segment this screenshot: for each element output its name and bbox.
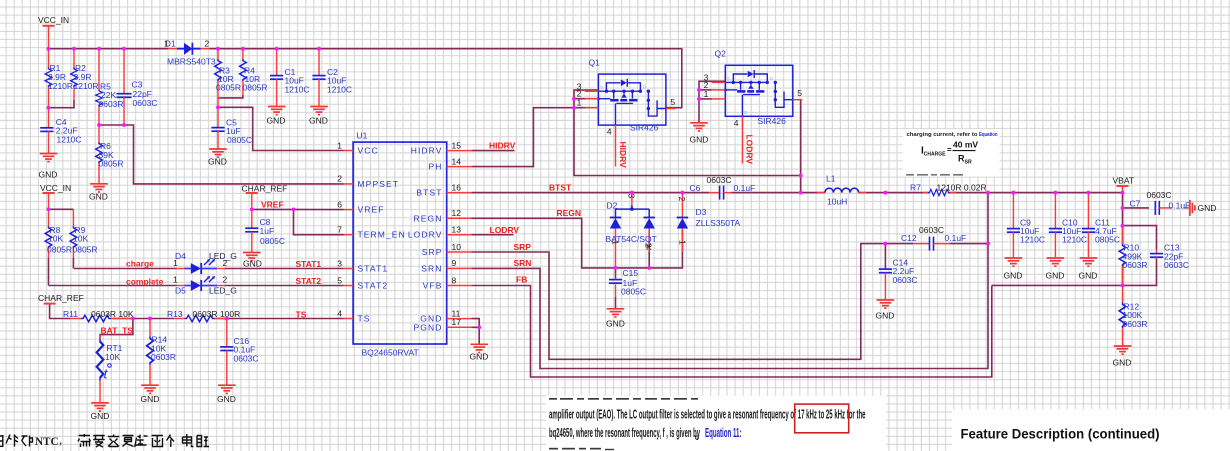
svg-text:STAT1: STAT1 — [358, 264, 389, 274]
svg-text:NTC: NTC — [35, 436, 59, 448]
svg-text:1: 1 — [173, 258, 178, 268]
ground C16 — [217, 385, 236, 404]
svg-text:Equation 11:: Equation 11: — [705, 425, 742, 440]
node VCC_IN2/R8 — [47, 207, 51, 211]
wire C12 row — [885, 243, 913, 245]
ground C14 — [876, 300, 895, 321]
ground C4 — [39, 154, 58, 180]
op-amp U1 BQ24650RVAT chip body — [353, 131, 447, 358]
capacitor C16 — [220, 319, 258, 386]
resistor R10 — [1119, 226, 1147, 286]
diode D3 ZLLS350TA — [677, 193, 741, 252]
wire TERM_EN branch — [294, 209, 344, 234]
thermistor RT1 — [97, 335, 123, 403]
node REGN/D2a2 — [647, 266, 651, 270]
capacitor C5 — [211, 107, 252, 149]
svg-text:0805R: 0805R — [99, 158, 124, 168]
svg-text:0603R 10K: 0603R 10K — [91, 309, 134, 319]
svg-text:1210R: 1210R — [48, 81, 73, 91]
node R3/C5 — [216, 105, 220, 109]
svg-text:0805C: 0805C — [1095, 235, 1120, 245]
U1 pin numbers — [337, 140, 461, 327]
svg-text:GND: GND — [267, 116, 286, 126]
ground C1 — [267, 107, 286, 126]
svg-text:12: 12 — [452, 208, 462, 218]
svg-text:0603C: 0603C — [707, 175, 732, 185]
svg-text:1: 1 — [337, 140, 342, 150]
svg-text:complete: complete — [126, 276, 164, 286]
node C3/MPPSET — [122, 123, 126, 127]
svg-text:5: 5 — [337, 275, 342, 285]
ground C15 — [606, 309, 625, 329]
svg-text:VCC_IN: VCC_IN — [40, 183, 71, 193]
svg-text:0603R: 0603R — [1123, 260, 1148, 270]
svg-text:SR: SR — [965, 160, 972, 166]
svg-text:MPPSET: MPPSET — [358, 179, 400, 189]
resistor R1 — [45, 49, 73, 108]
svg-text:Feature Description (continued: Feature Description (continued) — [961, 426, 1160, 442]
svg-text:1210R 0.02R: 1210R 0.02R — [937, 182, 987, 192]
resistor R14 — [147, 319, 176, 386]
svg-text:6: 6 — [337, 199, 342, 209]
node BTST/D3 — [680, 191, 684, 195]
resistor R12 — [1119, 285, 1147, 345]
svg-text:0603C: 0603C — [1164, 260, 1189, 270]
wire VREF row — [252, 208, 344, 210]
node R1/C4 — [47, 106, 51, 110]
svg-text:GND: GND — [243, 259, 262, 269]
wire STAT1 row — [74, 268, 177, 270]
node bus/R5 — [97, 47, 101, 51]
wire Q2 gate GND tie — [699, 81, 725, 122]
resistor R6 — [96, 125, 124, 183]
svg-text:0603R 100R: 0603R 100R — [193, 309, 241, 319]
wire node R1R2 bottom — [49, 100, 75, 108]
capacitor C3 — [116, 49, 157, 125]
node bus/C3 — [122, 47, 126, 51]
svg-text:Q1: Q1 — [589, 57, 601, 67]
svg-text:1210C: 1210C — [1020, 235, 1045, 245]
svg-text:2: 2 — [223, 275, 228, 285]
svg-text:1210C: 1210C — [327, 84, 352, 94]
svg-text:0.1uF: 0.1uF — [734, 183, 756, 193]
wire FB net — [471, 285, 992, 377]
capacitor C7 — [1130, 190, 1191, 215]
wire SRP net — [471, 244, 885, 360]
svg-text:0603C: 0603C — [893, 275, 918, 285]
svg-text:SIR426: SIR426 — [758, 116, 787, 126]
node VREF/C8 — [250, 207, 254, 211]
svg-text:10K: 10K — [73, 234, 88, 244]
node VBAT/C9 — [1011, 191, 1015, 195]
wire VBAT column down to FB node — [1122, 193, 1124, 244]
svg-text:0603C: 0603C — [1147, 190, 1172, 200]
svg-text:HIDRV: HIDRV — [489, 141, 516, 151]
svg-text:GND: GND — [1079, 271, 1098, 281]
capacitor C11 — [1082, 193, 1120, 258]
wire R4 bottom jog — [218, 95, 243, 98]
svg-text:FB: FB — [516, 275, 527, 285]
node Q1 pin1/PH — [572, 106, 576, 110]
svg-text:0805C: 0805C — [260, 236, 285, 246]
svg-text:D3: D3 — [696, 207, 707, 217]
resistor R4 — [240, 49, 268, 95]
capacitor C4 — [40, 108, 81, 154]
ground C7 sideways — [1190, 200, 1216, 216]
capacitor C9 — [1007, 193, 1045, 258]
svg-text:PH: PH — [428, 162, 442, 172]
svg-text:o: o — [695, 433, 699, 442]
resistor R8 — [45, 209, 72, 258]
power flag VCC_IN 2 — [40, 183, 71, 209]
LED D5 — [173, 275, 237, 296]
svg-text:U1: U1 — [357, 131, 368, 141]
svg-text:1: 1 — [677, 240, 687, 245]
char bian — [108, 435, 120, 447]
svg-text:,: , — [59, 432, 62, 447]
wire R7 right to VBAT corner — [950, 192, 1123, 194]
node bus/R1 — [47, 47, 51, 51]
node TS/R14 — [148, 317, 152, 321]
U1 left pin stubs — [344, 151, 354, 319]
capacitor C1 — [270, 49, 310, 107]
formula overlay white box — [903, 129, 1000, 177]
capacitor C10 — [1049, 193, 1087, 258]
wire C7 row — [1123, 207, 1150, 209]
node PH/Q2 drain — [799, 174, 803, 178]
svg-text:GND: GND — [89, 192, 108, 202]
svg-text:7: 7 — [337, 225, 342, 235]
resistor R11 — [63, 309, 134, 322]
svg-text:1210C: 1210C — [1062, 235, 1087, 245]
svg-text:Equation: Equation — [979, 132, 998, 138]
chinese note text — [0, 434, 209, 447]
char liang — [152, 436, 164, 447]
wire LODRV stub from U1 — [471, 234, 513, 236]
node SW/L1 — [799, 191, 803, 195]
transistor Q2 SIR426 — [704, 49, 803, 131]
node Q2 pin1 — [697, 97, 701, 101]
char zu — [197, 436, 209, 447]
svg-text:0.1uF: 0.1uF — [945, 233, 967, 243]
wire R9 column to STAT1 — [72, 258, 74, 269]
node C12/SRP — [883, 242, 887, 246]
power flag CHAR_REF bottom — [38, 293, 84, 303]
svg-text:10uH: 10uH — [827, 197, 847, 207]
wire node R5/C3 bottom to MPPSET — [99, 125, 344, 184]
svg-text:VFB: VFB — [423, 281, 443, 291]
svg-text:0805R: 0805R — [73, 244, 98, 254]
svg-text:0805R: 0805R — [243, 83, 268, 93]
svg-text:1: 1 — [164, 39, 169, 49]
svg-text:LODRV: LODRV — [745, 135, 755, 165]
wire Q2 drain column — [800, 100, 802, 193]
capacitor C13 — [1150, 243, 1189, 270]
resistor R13 — [167, 309, 240, 322]
wire R8 column to STAT2 — [48, 258, 50, 286]
char dian — [183, 434, 194, 447]
inductor L1 — [817, 174, 866, 207]
svg-text:STAT2: STAT2 — [358, 281, 389, 291]
svg-text:4: 4 — [337, 308, 342, 318]
svg-text:CHAR_REF: CHAR_REF — [242, 183, 288, 193]
svg-text:GND: GND — [690, 135, 709, 145]
svg-text:0805C: 0805C — [227, 135, 252, 145]
svg-text:1210R: 1210R — [74, 81, 99, 91]
ground U1 PGND — [470, 344, 489, 361]
svg-text:L1: L1 — [826, 174, 836, 184]
ground C5 — [208, 149, 227, 167]
node TS/BAT_TS — [131, 317, 135, 321]
capacitor C14 — [879, 258, 918, 300]
svg-text:STAT2: STAT2 — [296, 276, 322, 286]
svg-text:CHARGE: CHARGE — [924, 152, 946, 158]
svg-text:PGND: PGND — [414, 322, 443, 332]
svg-text:BTST: BTST — [549, 183, 572, 193]
svg-text:VREF: VREF — [261, 199, 284, 209]
svg-text:16: 16 — [452, 182, 462, 192]
node R5/R6 — [97, 123, 101, 127]
svg-text:ZLLS350TA: ZLLS350TA — [696, 218, 741, 228]
svg-text:0603R: 0603R — [1123, 319, 1148, 329]
ground RT1 — [91, 403, 110, 421]
wire C14 column — [884, 244, 886, 269]
svg-text:LED_G: LED_G — [209, 285, 237, 295]
char bu — [22, 436, 33, 447]
wire C15 column — [615, 268, 617, 279]
svg-text:VCC: VCC — [358, 146, 379, 156]
svg-text:GND: GND — [217, 394, 236, 404]
svg-text:SRN: SRN — [421, 263, 442, 273]
svg-text:LED_G: LED_G — [209, 251, 237, 261]
ground R12 — [1113, 346, 1132, 367]
svg-text:10K: 10K — [48, 234, 63, 244]
node R10/C13 top — [1121, 224, 1125, 228]
capacitor C12 — [901, 225, 966, 251]
char wai — [6, 435, 18, 447]
svg-text:BQ24650RVAT: BQ24650RVAT — [362, 348, 419, 358]
power flag CHAR_REF — [242, 183, 288, 209]
svg-text:REGN: REGN — [414, 213, 443, 223]
ground Q2 — [690, 123, 709, 145]
capacitor C8 — [245, 209, 285, 252]
svg-text:1210C: 1210C — [57, 134, 82, 144]
wire C13 bottom link — [992, 259, 1157, 286]
ground C2 — [309, 107, 328, 126]
partial char — [0, 435, 4, 447]
wire C6 to L1 node — [732, 192, 826, 194]
svg-text:=: = — [947, 146, 952, 155]
svg-text:K: K — [646, 242, 652, 252]
char yao — [93, 436, 105, 448]
svg-text:CHAR_REF: CHAR_REF — [38, 293, 84, 303]
svg-text:SRP: SRP — [514, 242, 532, 252]
svg-text:1210C: 1210C — [285, 84, 310, 94]
svg-text:C12: C12 — [901, 233, 917, 243]
node C7 tap — [1121, 206, 1125, 210]
wire SRN net — [471, 193, 988, 369]
node VBAT/C10 — [1053, 191, 1057, 195]
char xu — [78, 434, 91, 447]
svg-text:GND: GND — [606, 318, 625, 328]
wire R3 node to VCC pin — [218, 107, 344, 150]
LC filter text overlay — [546, 396, 886, 451]
wire U1 GND/PGND tie — [471, 319, 479, 328]
transistor Q1 SIR426 — [577, 57, 676, 139]
svg-text:BTST: BTST — [416, 188, 442, 198]
node Q2 pin2 — [697, 88, 701, 92]
svg-text:BAT_TS: BAT_TS — [101, 326, 134, 336]
svg-text:TS: TS — [296, 309, 307, 319]
svg-text:charge: charge — [126, 259, 154, 269]
ground C10 — [1046, 258, 1065, 281]
svg-text:0.1uF: 0.1uF — [1169, 200, 1191, 210]
wire D2 anode 2 drop — [648, 230, 650, 268]
wire VCC_IN bus right of D1 to Q1 drain corner — [210, 49, 682, 108]
svg-text:10: 10 — [452, 242, 462, 252]
node Q1 pin2 — [572, 97, 576, 101]
svg-text:MBRS540T3: MBRS540T3 — [167, 57, 216, 67]
svg-text:0603C: 0603C — [234, 353, 259, 363]
ground C11 — [1079, 258, 1098, 281]
svg-text:0805R: 0805R — [216, 83, 241, 93]
node bus/C2 — [317, 47, 321, 51]
char geng — [123, 436, 134, 447]
diode D2 BAT54C/SQT — [606, 193, 657, 268]
svg-text:D2: D2 — [607, 201, 618, 211]
svg-text:SRN: SRN — [514, 258, 532, 268]
svg-text:GND: GND — [1113, 357, 1132, 367]
svg-text:GND: GND — [91, 411, 110, 421]
wire BAT_TS branch — [100, 319, 133, 339]
svg-text:LODRV: LODRV — [408, 230, 443, 240]
node TS/C16 — [225, 317, 229, 321]
svg-text:2: 2 — [677, 197, 687, 202]
svg-text:GND: GND — [39, 170, 58, 180]
net label HIDRV vertical at Q1 gate — [616, 139, 628, 168]
wire TS row — [50, 305, 70, 319]
wire L1 to R7 — [859, 192, 928, 194]
svg-text:C7: C7 — [1130, 198, 1141, 208]
char ge — [167, 435, 175, 448]
svg-text:GND: GND — [141, 394, 160, 404]
wire PH net U1 to Q1 sources — [471, 108, 598, 167]
svg-text:C15: C15 — [623, 268, 639, 278]
svg-text:VBAT: VBAT — [1113, 176, 1135, 186]
svg-text:8: 8 — [452, 275, 457, 285]
node L1/R7 — [883, 191, 887, 195]
wire REGN net — [471, 218, 682, 268]
node VBAT/C11 — [1086, 191, 1090, 195]
wire VCC_IN2 node row — [49, 208, 74, 210]
svg-text:GND: GND — [876, 311, 895, 321]
diode D1 MBRS540T3 — [164, 39, 216, 67]
svg-text:GND: GND — [1046, 271, 1065, 281]
svg-text:SRP: SRP — [422, 247, 443, 257]
svg-text:3: 3 — [337, 258, 342, 268]
resistor R7 sense — [910, 182, 987, 196]
svg-text:bq24650, where the resonant fr: bq24650, where the resonant frequency, f… — [549, 425, 700, 440]
resistor R9 — [70, 209, 97, 258]
svg-text:R13: R13 — [167, 309, 183, 319]
svg-text:14: 14 — [452, 156, 462, 166]
svg-text:0603C: 0603C — [133, 98, 158, 108]
svg-text:9: 9 — [452, 258, 457, 268]
ground R6 — [89, 184, 108, 202]
svg-text:VREF: VREF — [358, 205, 385, 215]
svg-text:40 mV: 40 mV — [953, 140, 978, 150]
power flag VBAT — [1113, 176, 1135, 193]
wire HIDRV stub from U1 — [471, 150, 514, 152]
svg-text:15: 15 — [452, 140, 462, 150]
ground C9 — [1004, 258, 1023, 281]
svg-text:LODRV: LODRV — [490, 225, 520, 235]
svg-text:0805C: 0805C — [621, 287, 646, 297]
svg-text:1: 1 — [173, 275, 178, 285]
U1 right pin stubs — [447, 151, 472, 328]
svg-text:2: 2 — [337, 174, 342, 184]
svg-text:R11: R11 — [63, 309, 78, 319]
net label LODRV vertical at Q2 gate — [742, 130, 754, 164]
svg-text:REGN: REGN — [557, 208, 582, 218]
svg-text:C3: C3 — [132, 80, 143, 90]
svg-text:GND: GND — [309, 116, 328, 126]
svg-text:0603C: 0603C — [919, 225, 944, 235]
svg-text:0603R: 0603R — [151, 352, 176, 362]
resistor R2 — [71, 49, 99, 100]
node bus/C1 — [275, 47, 279, 51]
wire STAT2 row — [49, 285, 177, 287]
capacitor C6 — [690, 175, 756, 199]
ground R14 — [141, 385, 160, 404]
resistor R5 — [96, 49, 124, 125]
U1 pin names — [358, 146, 443, 333]
node bus/R3 — [216, 47, 220, 51]
node bus/R2 — [72, 47, 76, 51]
LED D4 — [173, 251, 237, 274]
wire R10/C13 top link — [1123, 226, 1157, 250]
svg-text:13: 13 — [452, 225, 462, 235]
resistor R3 — [215, 49, 241, 108]
capacitor C2 — [312, 49, 352, 107]
svg-text:TS: TS — [358, 314, 371, 324]
node GND/PGND — [477, 325, 481, 329]
svg-text:HIDRV: HIDRV — [618, 142, 628, 169]
svg-text:2: 2 — [205, 39, 210, 49]
svg-text:amplifier output (EAO). The LC: amplifier output (EAO). The LC output fi… — [549, 406, 866, 421]
node VBAT flag — [1121, 191, 1125, 195]
node BTST/D2 — [630, 191, 634, 195]
node bus/R4 — [241, 47, 245, 51]
svg-text:R7: R7 — [910, 182, 921, 192]
char zhe — [135, 435, 148, 447]
svg-text:0603R: 0603R — [99, 99, 124, 109]
svg-text:10K: 10K — [105, 352, 120, 362]
capacitor C15 — [609, 268, 646, 297]
wire BTST row — [471, 192, 709, 194]
node C12/SRN — [986, 242, 990, 246]
svg-text:GND: GND — [208, 157, 227, 167]
svg-text:charging current, refer to: charging current, refer to — [907, 132, 978, 138]
svg-text:STAT1: STAT1 — [296, 259, 322, 269]
node VREF/TERM_EN — [292, 207, 296, 211]
svg-text:1: 1 — [610, 240, 620, 245]
svg-text:VCC_IN: VCC_IN — [38, 15, 69, 25]
svg-text:1uF: 1uF — [260, 226, 275, 236]
node REGN/C15 — [614, 266, 618, 270]
svg-text:HIDRV: HIDRV — [411, 146, 443, 156]
svg-text:0805R: 0805R — [47, 244, 72, 254]
